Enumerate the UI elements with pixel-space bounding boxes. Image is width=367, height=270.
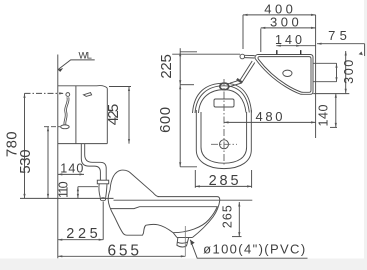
cistern <box>58 86 108 89</box>
dim 530 <box>44 126 60 128</box>
inlet horn <box>99 184 100 198</box>
dim 780 <box>25 92 64 94</box>
pan hood side view <box>110 170 159 197</box>
dim 140 left <box>58 173 84 175</box>
lever <box>84 93 92 97</box>
dim 110 <box>78 186 98 188</box>
flush pipe <box>81 144 100 181</box>
dim 140 right <box>335 93 337 127</box>
pan body front <box>196 110 251 169</box>
floor tick left of wall <box>20 197 114 199</box>
svg-text:285: 285 <box>209 173 239 189</box>
spud oval <box>61 125 70 129</box>
dim 300 right <box>345 51 347 93</box>
right small dim (tank) <box>313 62 336 64</box>
top dims <box>242 15 244 49</box>
node WL leader <box>58 60 95 70</box>
dim 75 <box>317 43 365 45</box>
svg-text:655: 655 <box>107 242 139 259</box>
flexible hose <box>64 97 67 124</box>
dim 225 bottom <box>102 202 104 240</box>
svg-text:600: 600 <box>157 107 174 133</box>
svg-text:140: 140 <box>60 161 83 175</box>
svg-text:425: 425 <box>105 104 122 126</box>
corner tank outline <box>255 55 313 95</box>
svg-text:225: 225 <box>158 54 175 79</box>
svg-text:400: 400 <box>264 1 293 16</box>
flange <box>97 180 108 184</box>
svg-text:140: 140 <box>275 33 302 47</box>
supply pipe stub <box>245 54 255 56</box>
svg-text:225: 225 <box>66 226 97 242</box>
dim 425 <box>109 86 131 88</box>
skirt line + inner flare <box>110 207 217 233</box>
outlet outer flare <box>192 200 219 237</box>
svg-text:480: 480 <box>256 109 283 124</box>
svg-text:140: 140 <box>317 104 331 126</box>
wall top line <box>172 53 240 55</box>
flush hole rect <box>214 99 234 107</box>
pipe collar <box>237 79 242 83</box>
dim 480 <box>224 121 316 123</box>
svg-text:300: 300 <box>270 14 299 29</box>
leader ø100 <box>190 240 307 258</box>
crosshair <box>220 140 229 149</box>
centerline <box>223 79 225 166</box>
hood outer <box>193 83 252 113</box>
wall <box>57 55 59 259</box>
dim 285 <box>194 170 196 188</box>
flush pipe diagonal <box>230 80 240 83</box>
pan body below floor <box>108 190 177 237</box>
svg-text:300: 300 <box>342 60 356 84</box>
floor lines <box>158 197 220 201</box>
trap drain cylinder <box>177 237 193 239</box>
svg-text:265: 265 <box>220 205 234 228</box>
spreader ring <box>220 83 229 90</box>
float valve <box>66 93 70 97</box>
svg-text:WL: WL <box>79 51 92 62</box>
lid hole <box>283 70 292 76</box>
dim 265 <box>238 202 240 237</box>
dim 225/600 column <box>180 51 197 53</box>
svg-text:ø100(4")(PVC): ø100(4")(PVC) <box>203 242 306 257</box>
tank bolts <box>276 50 278 54</box>
inlet circle <box>240 54 245 59</box>
ext line tank bottom <box>313 93 349 95</box>
dim 655 <box>184 226 186 256</box>
svg-text:530: 530 <box>17 149 34 173</box>
svg-text:110: 110 <box>56 181 70 198</box>
